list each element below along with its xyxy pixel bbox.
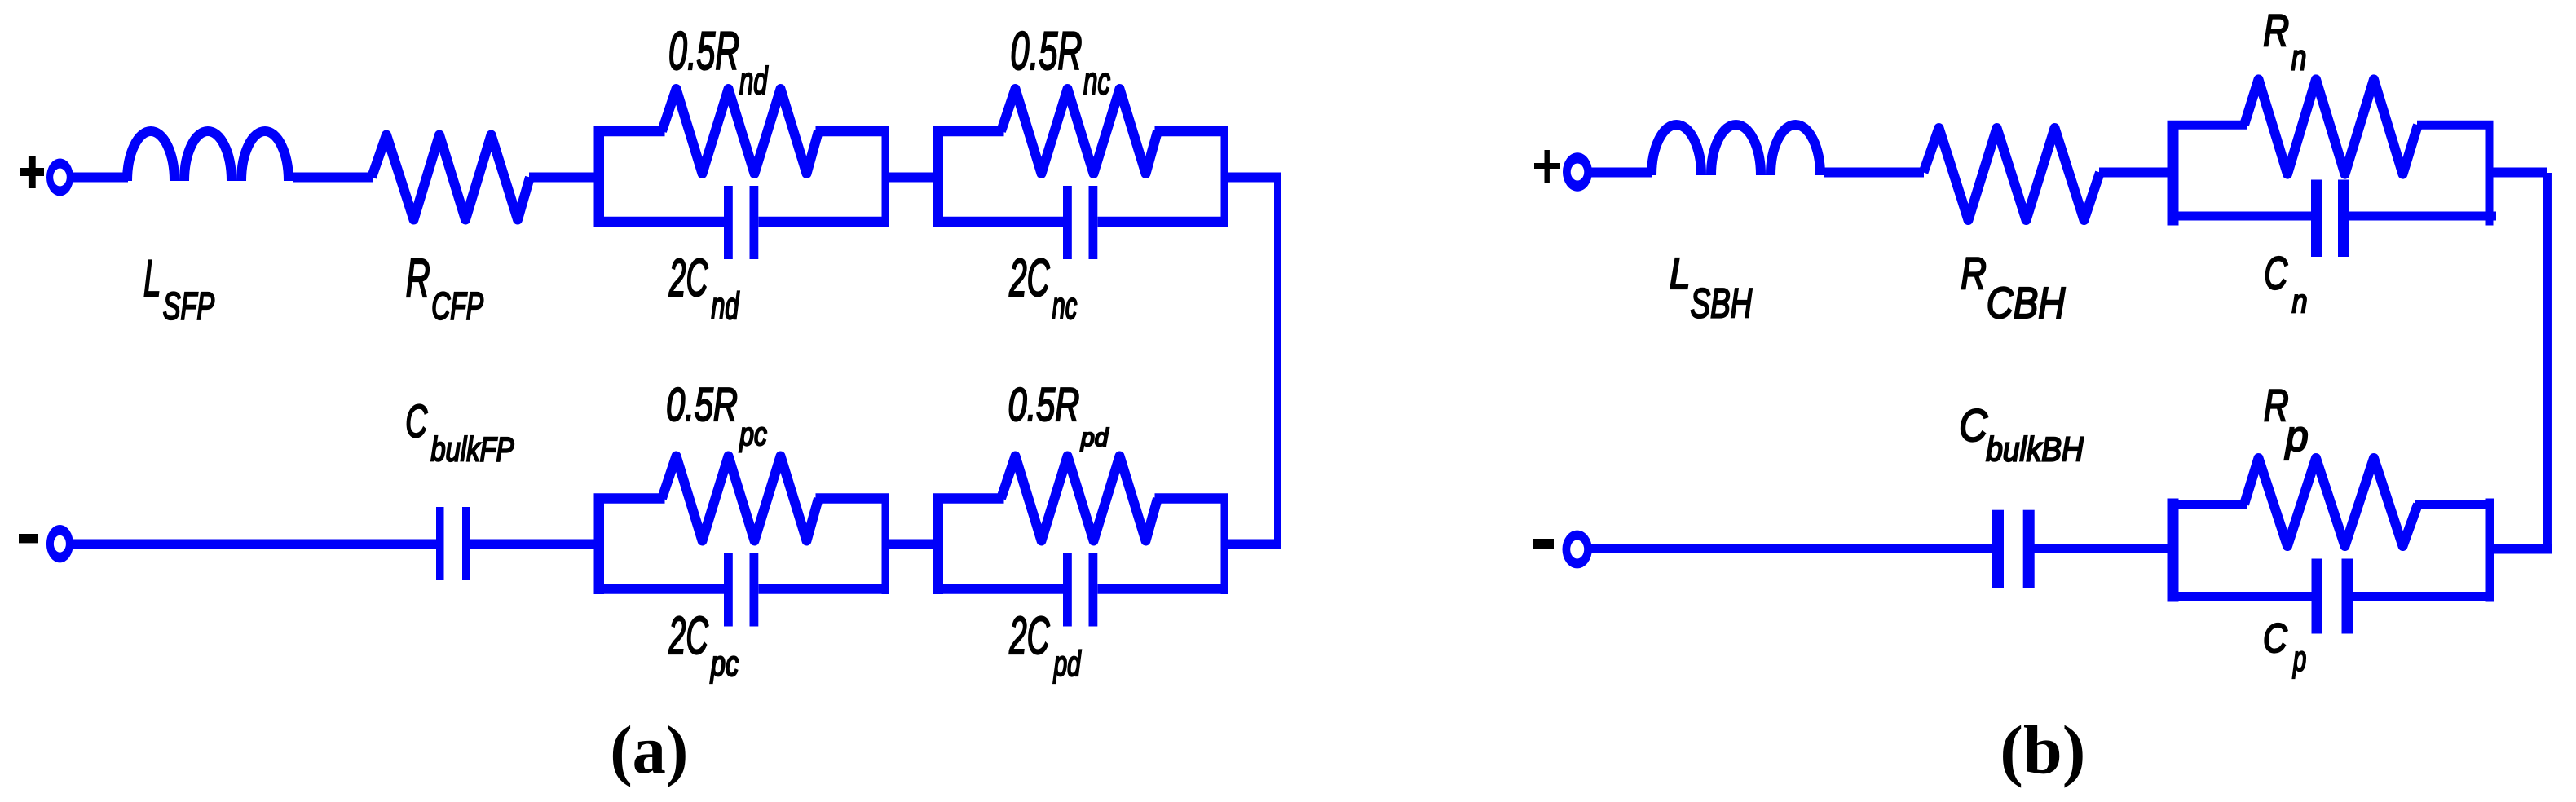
label 0.5R_nc: [1010, 20, 1110, 103]
label R_n: [2263, 7, 2306, 78]
label 2C_pd: [1008, 607, 1081, 683]
wire (a) C_bulkFP to block pc: [470, 540, 595, 549]
label L_SFP: [143, 251, 214, 328]
label 2C_pc: [668, 607, 739, 684]
resistor 0.5R_nd: [662, 89, 818, 174]
terminal node - (a): [46, 525, 73, 562]
svg-text:pd: pd: [1053, 643, 1082, 683]
svg-text:R: R: [406, 248, 430, 308]
wire (b) block p to right vertical: [2493, 544, 2552, 554]
label 0.5R_nd: [668, 20, 769, 103]
svg-text:C: C: [405, 397, 427, 447]
svg-text:R: R: [1961, 249, 1987, 298]
svg-text:bulkBH: bulkBH: [1986, 431, 2084, 469]
svg-text:pc: pc: [710, 644, 739, 684]
wire (b) inductor to R_CBH: [1824, 168, 1924, 178]
wire (a) - terminal to C_bulkFP: [70, 540, 437, 549]
svg-text:C: C: [2263, 615, 2287, 661]
svg-text:0.5R: 0.5R: [1010, 20, 1082, 81]
svg-text:C: C: [2264, 249, 2287, 299]
resistor 0.5R_pc: [662, 456, 818, 541]
svg-text:2C: 2C: [1008, 249, 1050, 308]
wire right vertical connecting top and bottom rows (a): [1274, 173, 1281, 549]
capacitor C_n: [2311, 180, 2349, 258]
wire right vertical connecting top and bottom rows (b): [2543, 173, 2552, 553]
svg-text:2C: 2C: [668, 607, 708, 666]
capacitor 2C_nc: [1063, 186, 1097, 259]
wire (a) block pd to right vertical: [1228, 540, 1281, 549]
capacitor C_bulkBH: [1992, 510, 2035, 588]
resistor R_CFP: [372, 135, 530, 220]
svg-text:SBH: SBH: [1691, 281, 1753, 327]
svg-text:0.5R: 0.5R: [666, 379, 738, 431]
label C_p: [2263, 615, 2306, 679]
parallel RC block frame for R_p / C_p: [2168, 499, 2494, 601]
resistor R_p: [2244, 458, 2418, 546]
label C_bulkFP: [405, 397, 514, 469]
svg-text:(a): (a): [610, 712, 688, 788]
label R_p: [2264, 381, 2309, 460]
label C_bulkBH: [1959, 401, 2084, 469]
label (b): [2000, 712, 2085, 788]
svg-text:bulkFP: bulkFP: [430, 430, 514, 468]
svg-text:p: p: [2284, 412, 2309, 460]
svg-text:0.5R: 0.5R: [668, 20, 739, 81]
capacitor C_p: [2312, 559, 2353, 634]
label (a): [610, 712, 688, 788]
resistor R_n: [2244, 79, 2418, 174]
minus sign terminal (a): [19, 534, 38, 543]
inductor L_SFP: [127, 131, 289, 181]
terminal node - (b): [1563, 531, 1592, 569]
capacitor 2C_pc: [724, 553, 758, 627]
wire (a) block nc to right vertical: [1228, 173, 1281, 183]
label C_n: [2264, 249, 2307, 319]
svg-text:nc: nc: [1083, 60, 1110, 103]
svg-text:L: L: [143, 251, 161, 308]
wire (a) + terminal to inductor: [70, 173, 128, 183]
svg-text:p: p: [2292, 638, 2306, 678]
capacitor 2C_nd: [724, 186, 758, 259]
parallel RC block frame for 0.5R_pc / 2C_pc: [594, 494, 890, 595]
svg-text:nc: nc: [1052, 285, 1078, 328]
svg-text:2C: 2C: [668, 249, 708, 307]
terminal node + (b): [1563, 152, 1592, 191]
plus sign terminal (b): [1534, 150, 1560, 183]
svg-text:R: R: [2263, 7, 2289, 55]
parallel RC block frame for R_n / C_n: [2168, 121, 2497, 226]
wire (b) R_CBH to RC block n: [2099, 168, 2168, 178]
svg-text:nd: nd: [711, 286, 739, 328]
label R_CBH: [1961, 249, 2066, 328]
wire (b) C_bulkBH to block p: [2029, 544, 2168, 553]
parallel RC block frame for 0.5R_pd / 2C_pd: [933, 494, 1229, 595]
label 0.5R_pd: [1008, 379, 1109, 452]
svg-text:nd: nd: [739, 60, 769, 103]
wire (b) + terminal to inductor: [1588, 168, 1652, 178]
parallel RC block frame for 0.5R_nd / 2C_nd: [594, 126, 890, 227]
resistor 0.5R_nc: [1001, 89, 1158, 174]
svg-text:0.5R: 0.5R: [1008, 379, 1080, 431]
svg-text:C: C: [1959, 401, 1987, 452]
inductor L_SBH: [1652, 125, 1820, 175]
wire (b) - terminal to C_bulkBH: [1587, 544, 1994, 553]
svg-text:L: L: [1670, 249, 1691, 298]
capacitor C_bulkFP: [436, 507, 470, 580]
plus sign terminal (a): [20, 156, 44, 188]
svg-text:SFP: SFP: [163, 284, 214, 328]
resistor R_CBH: [1924, 128, 2101, 220]
svg-text:CBH: CBH: [1987, 279, 2066, 328]
label 2C_nd: [668, 249, 739, 327]
svg-text:pc: pc: [739, 416, 767, 452]
label 2C_nc: [1008, 249, 1077, 328]
label R_CFP: [406, 248, 484, 328]
wire (a) block pc to block pd: [889, 540, 933, 549]
resistor 0.5R_pd: [1001, 456, 1158, 541]
label 0.5R_pc: [666, 379, 767, 452]
svg-text:n: n: [2292, 283, 2308, 319]
svg-text:pd: pd: [1080, 425, 1109, 452]
capacitor 2C_pd: [1063, 553, 1097, 627]
svg-text:2C: 2C: [1008, 607, 1050, 666]
wire (a) inductor to R_CFP: [293, 173, 373, 183]
label L_SBH: [1670, 249, 1753, 327]
parallel RC block frame for 0.5R_nc / 2C_nc: [933, 126, 1229, 227]
svg-text:(b): (b): [2000, 712, 2085, 788]
svg-text:CFP: CFP: [431, 284, 483, 328]
terminal node + (a): [46, 159, 73, 196]
minus sign terminal (b): [1533, 539, 1554, 549]
svg-text:n: n: [2291, 38, 2307, 77]
wire (a) block nd to block nc: [889, 173, 933, 183]
wire (b) block n to right vertical: [2492, 168, 2547, 178]
wire (a) R_CFP to RC block 1: [529, 173, 594, 183]
